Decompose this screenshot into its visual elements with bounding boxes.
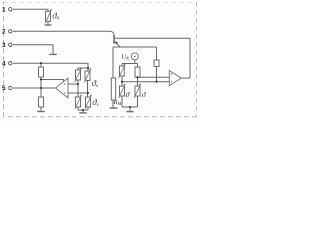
svg-text:4: 4 (2, 60, 6, 67)
svg-text:1: 1 (2, 7, 6, 14)
svg-text:2: 2 (2, 29, 6, 36)
svg-text:3: 3 (2, 42, 6, 49)
svg-text:5: 5 (2, 85, 6, 92)
